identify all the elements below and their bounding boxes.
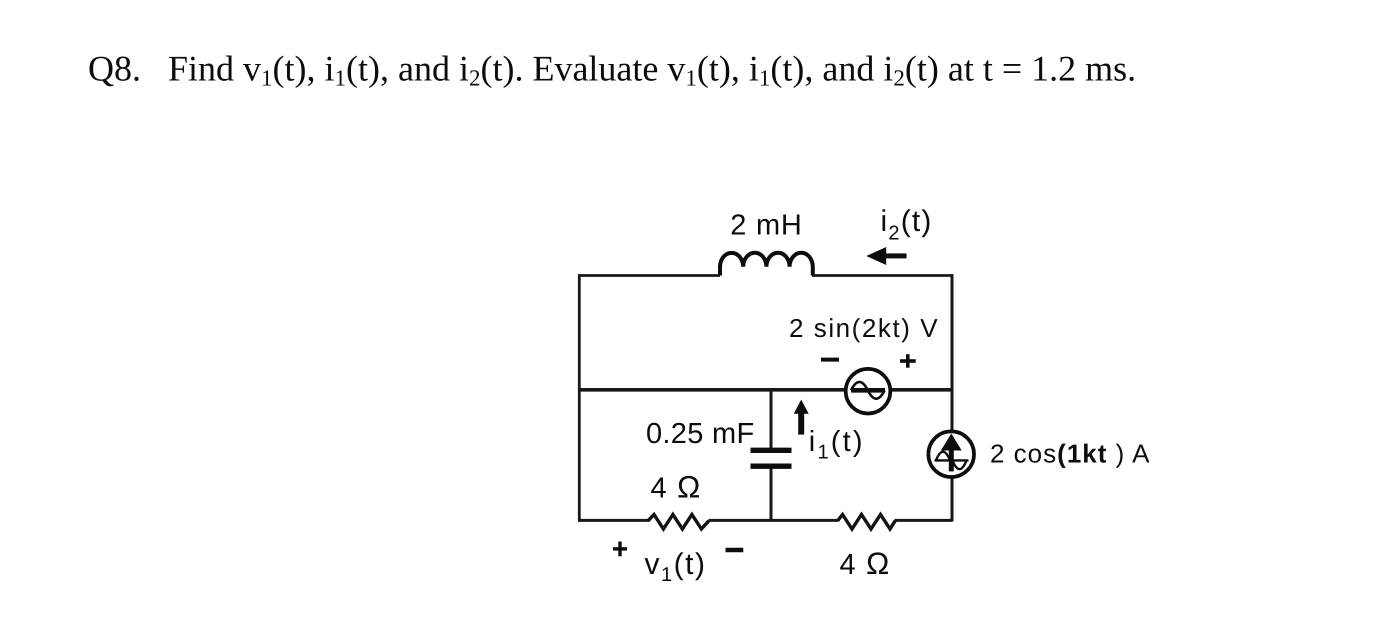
current source arrow [941,434,962,472]
inductor L1 2 mH [720,253,813,276]
svg-text:2 sin(2kt) V: 2 sin(2kt) V [789,313,939,343]
svg-text:2 cos(1kt ) A: 2 cos(1kt ) A [990,438,1150,468]
minus sign of VS1 [821,358,839,362]
wire capacitor branch lower [770,467,773,521]
wire right [951,274,954,521]
plus sign of VS1 [900,354,916,368]
resistor R1 4ohm left [648,515,709,530]
wire top-left segment [578,274,720,277]
svg-text:2 mH: 2 mH [730,209,803,241]
svg-text:4 Ω: 4 Ω [651,469,702,504]
wire middle [578,388,952,392]
wire bottom-middle segment [709,519,839,522]
svg-text:v1(t): v1(t) [645,548,707,586]
current source IS1 circle [928,431,974,477]
current arrow i2 [866,247,906,265]
voltage source VS1 circle [846,369,891,414]
wire capacitor branch upper [770,389,773,449]
current arrow i1 [794,400,809,435]
resistor R2 4ohm right [838,515,896,530]
svg-text:i2(t): i2(t) [881,205,933,244]
wire left [578,274,581,521]
capacitor C1 bottom plate [751,464,792,469]
svg-text:i1(t): i1(t) [809,426,865,464]
current source sine [935,452,969,469]
plus sign of v1 [613,542,627,557]
svg-text:Q8. Find v1(t), i1(t), and i: Q8. Find v1(t), i1(t), and i2(t). Evalua… [88,49,1136,91]
minus sign of v1 [726,548,744,553]
wire top-right segment [812,274,954,277]
wire bottom-left segment [578,519,649,522]
wire bottom-right segment [895,519,953,522]
capacitor C1 0.25 mF top plate [751,448,792,453]
svg-text:0.25 mF: 0.25 mF [646,418,754,450]
svg-text:4 Ω: 4 Ω [840,546,891,581]
voltage source bar [851,388,885,393]
voltage source sine [851,382,885,399]
